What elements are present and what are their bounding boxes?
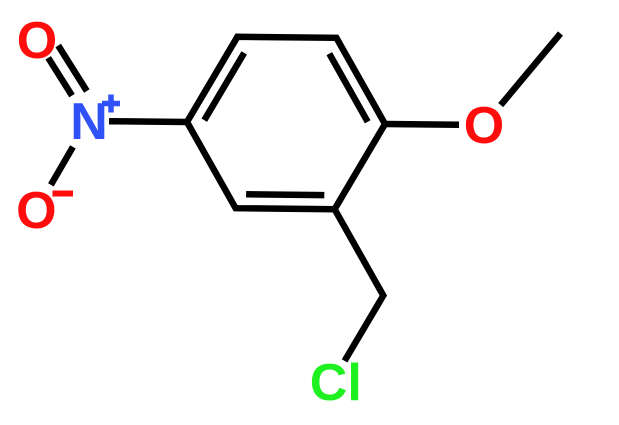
svg-text:O: O — [464, 97, 504, 155]
svg-text:O: O — [17, 12, 57, 70]
svg-text:Cl: Cl — [310, 354, 362, 412]
svg-text:O: O — [16, 182, 56, 240]
